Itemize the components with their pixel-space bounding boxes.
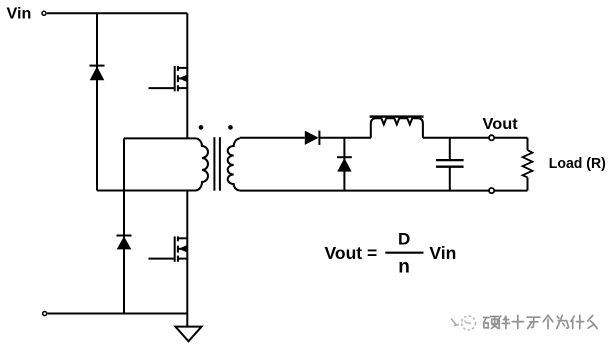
wire D4 branch xyxy=(343,138,345,191)
svg-text:Load (R): Load (R) xyxy=(549,155,606,172)
node dot primary xyxy=(199,125,204,130)
transformer T1 primary winding xyxy=(196,138,208,190)
svg-text:D: D xyxy=(398,230,410,249)
wire bottom rail xyxy=(48,313,188,315)
watermark logo xyxy=(451,316,476,330)
transformer T1 secondary winding xyxy=(228,138,240,190)
wire to load top xyxy=(495,137,528,139)
inductor L1 core bar xyxy=(370,115,424,117)
formula Vout = D/n Vin xyxy=(325,230,457,278)
terminal Vin+ xyxy=(42,11,46,15)
wire Q2 drain-source xyxy=(186,191,188,327)
wire load bottom xyxy=(495,190,528,192)
wire D2 branch xyxy=(123,138,125,313)
wire D3 to L1 xyxy=(319,137,371,139)
svg-text:Vout: Vout xyxy=(483,116,519,133)
wire Q1 drain xyxy=(186,13,188,138)
wire primary top xyxy=(124,137,196,139)
wire primary bottom xyxy=(97,190,196,192)
inductor L1 xyxy=(371,118,423,138)
terminal Vin- xyxy=(43,312,47,316)
transistor Q2 xyxy=(149,236,188,261)
svg-text:Vin: Vin xyxy=(7,6,32,23)
wire L1 to output xyxy=(423,137,489,139)
wire secondary bottom xyxy=(240,190,489,192)
wire secondary top xyxy=(240,137,305,139)
watermark text 硬件十万个为什么 xyxy=(484,315,599,330)
svg-text:Vin: Vin xyxy=(429,243,456,263)
ground xyxy=(175,327,201,342)
transistor Q1 xyxy=(149,66,188,91)
diode D1 xyxy=(90,66,105,81)
svg-text:Vout =: Vout = xyxy=(325,243,378,263)
resistor Load xyxy=(523,138,533,191)
wire top rail xyxy=(47,12,188,14)
svg-text:n: n xyxy=(398,257,410,278)
terminal Vout+ xyxy=(489,135,494,140)
diode D3 xyxy=(305,131,320,145)
diode D4 xyxy=(337,157,352,171)
transformer T1 core xyxy=(214,137,220,191)
node dot secondary xyxy=(228,125,233,130)
diode D2 xyxy=(117,236,132,250)
terminal Vout- xyxy=(489,188,494,193)
wire D1 branch xyxy=(96,13,98,190)
capacitor C1 xyxy=(436,138,464,191)
